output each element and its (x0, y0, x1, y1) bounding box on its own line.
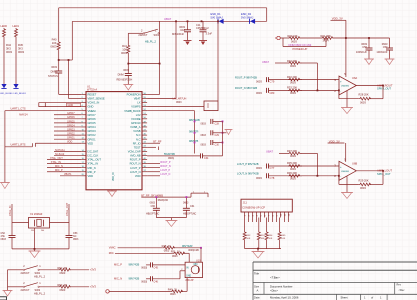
junction (257, 248, 259, 250)
wire (118, 247, 163, 249)
wire VBAT rail top (59, 7, 267, 9)
svg-text:GPIO3: GPIO3 (88, 129, 97, 133)
switch SW3 (8, 286, 24, 288)
svg-text:C61: C61 (190, 205, 195, 208)
wire (335, 37, 390, 39)
junction (382, 85, 384, 87)
wire (127, 54, 129, 64)
svg-text:MIC: MIC (109, 251, 114, 255)
svg-text:Monday, April 10, 2006: Monday, April 10, 2006 (270, 296, 299, 300)
capacitor C60 (155, 197, 157, 208)
svg-text:55UR74B: 55UR74B (164, 153, 175, 156)
svg-text:0603|: 0603| (141, 267, 147, 270)
svg-text:POWER-UP: POWER-UP (293, 47, 308, 51)
svg-text:0603: 0603 (183, 201, 189, 204)
svg-text:VMEM: VMEM (88, 109, 96, 113)
svg-text:LOUT_N 98V742B: LOUT_N 98V742B (237, 172, 259, 176)
ground (341, 192, 353, 194)
left ground rail (4, 111, 6, 183)
capacitor C11 (202, 21, 204, 30)
svg-text:0603: 0603 (360, 186, 366, 190)
wire RF_IO (147, 142, 160, 144)
svg-text:ROUT_N: ROUT_N (160, 165, 170, 168)
svg-text:MIC_P: MIC_P (114, 263, 122, 267)
connector J11 (241, 199, 292, 212)
svg-text:XTAL_OUT: XTAL_OUT (88, 158, 102, 162)
svg-text:LOUT_P: LOUT_P (130, 166, 141, 170)
svg-text:DNM: DNM (51, 70, 57, 74)
svg-text:JUD-3P: JUD-3P (185, 279, 194, 282)
svg-text:5V0 SMAJ: 5V0 SMAJ (211, 16, 224, 20)
wire LOUT_N (147, 175, 160, 177)
svg-text:RESET: RESET (88, 93, 97, 97)
wire GPIO6 (54, 118, 81, 120)
wire (303, 37, 321, 39)
wire (70, 269, 90, 271)
svg-text:UBAT: UBAT (266, 150, 273, 154)
capacitor C77 (266, 164, 268, 169)
svg-text:C28: C28 (215, 123, 220, 126)
svg-text:C77: C77 (270, 166, 275, 170)
svg-text:VDD: VDD (88, 141, 94, 145)
svg-text:GND: GND (88, 105, 94, 109)
wire I2C_DAT (54, 150, 81, 152)
svg-text:GPIO3: GPIO3 (67, 128, 75, 131)
resistor R52 (244, 218, 246, 232)
svg-text:<Doc>: <Doc> (270, 289, 278, 293)
svg-text:XTAL_IN: XTAL_IN (8, 206, 12, 216)
wire LOUT_P (147, 171, 160, 173)
svg-text:Title: Title (254, 272, 259, 276)
svg-text:98V742B: 98V742B (129, 263, 140, 267)
junction (175, 20, 177, 22)
svg-text:0603: 0603 (290, 177, 296, 181)
wire (141, 196, 191, 198)
svg-text:0603|: 0603| (141, 281, 147, 284)
svg-text:LOUT_P 98V742B: LOUT_P 98V742B (237, 162, 259, 166)
svg-text:SW3: SW3 (35, 288, 41, 292)
svg-text:GND: GND (68, 104, 74, 107)
svg-text:GND: GND (186, 276, 191, 278)
GND label box (39, 106, 82, 108)
op-amp U6A (339, 76, 356, 95)
svg-text:0603: 0603 (290, 80, 296, 84)
svg-text:ESD_D2: ESD_D2 (241, 12, 252, 16)
svg-text:VUSB: VUSB (133, 129, 140, 133)
wire (257, 249, 259, 252)
capacitor C46 (146, 278, 151, 280)
svg-text:UART1_RTS: UART1_RTS (11, 142, 26, 146)
wire (68, 204, 70, 236)
svg-text:VDD: VDD (88, 174, 94, 178)
wire (12, 248, 69, 250)
svg-text:LX2: LX2 (136, 113, 141, 117)
ground (3, 290, 13, 292)
svg-text:XTAL_OUT: XTAL_OUT (50, 157, 63, 160)
resistor R45 (15, 28, 18, 38)
wire XTAL_OUT (47, 159, 81, 161)
wire (316, 153, 318, 175)
svg-text:+3V3: +3V3 (90, 284, 97, 288)
capacitor DNM reset (127, 64, 129, 74)
svg-text:0603: 0603 (256, 80, 262, 84)
svg-text:GPIO7: GPIO7 (88, 113, 97, 117)
junction (217, 20, 219, 22)
svg-text:0603: 0603 (73, 238, 79, 241)
wire (7, 270, 9, 291)
wire VDD (35, 142, 81, 144)
wire rail 2 (73, 20, 267, 22)
ground (341, 107, 353, 109)
svg-text:0603: 0603 (290, 154, 296, 158)
stub marks (38, 103, 40, 107)
svg-text:DNM 0603 C9 1N3: DNM 0603 C9 1N3 (289, 43, 312, 47)
ground (165, 220, 177, 222)
svg-text:0603|: 0603| (168, 157, 174, 160)
wire MIC_P (47, 171, 81, 173)
wire GPIO4 (54, 126, 81, 128)
svg-text:C78: C78 (270, 176, 275, 180)
capacitor C53 (66, 235, 73, 237)
svg-text:GPIO2: GPIO2 (88, 133, 97, 137)
svg-text:2WCKT: 2WCKT (138, 33, 147, 37)
svg-text:C10: C10 (180, 28, 185, 32)
antenna connector (191, 192, 208, 194)
svg-text:UBAT: UBAT (262, 60, 269, 64)
svg-text:LOUT_N: LOUT_N (130, 170, 141, 174)
wire VCHG_IN (39, 102, 81, 104)
svg-text:ROUT_P: ROUT_P (160, 161, 170, 164)
wire UBAT to buck (217, 21, 219, 101)
junction (201, 20, 203, 22)
svg-text:100N1UF: 100N1UF (356, 50, 368, 54)
svg-text:10K: 10K (261, 238, 265, 240)
capacitor C57 (389, 38, 391, 48)
svg-text:GPIO4: GPIO4 (88, 125, 97, 129)
wire VSMB to caps (147, 110, 194, 112)
svg-text:0603: 0603 (1, 238, 7, 241)
capacitor C45 (146, 264, 151, 266)
wire output (356, 170, 383, 172)
wire (70, 286, 90, 288)
svg-text:C56: C56 (362, 45, 367, 49)
svg-text:ROUT_N 98V742B: ROUT_N 98V742B (235, 86, 257, 90)
wire GPIO3 (54, 130, 81, 132)
ground (107, 190, 117, 192)
svg-text:0603: 0603 (164, 249, 170, 252)
svg-text:MIC_N: MIC_N (88, 166, 96, 170)
svg-text:LOUT_P: LOUT_P (160, 169, 170, 172)
svg-text:LED1: LED1 (13, 24, 20, 28)
svg-text:C46: C46 (154, 281, 159, 284)
svg-text:ROUT_P: ROUT_P (130, 158, 141, 162)
svg-text:I2C_CLK: I2C_CLK (88, 154, 99, 158)
op-amp U6B (339, 161, 356, 180)
svg-text:XTAL_OUT: XTAL_OUT (65, 202, 69, 216)
svg-text:SW2: SW2 (35, 271, 41, 275)
junction (200, 247, 202, 249)
svg-text:0603: 0603 (6, 50, 12, 54)
wire output (356, 85, 383, 87)
svg-text:IN: IN (186, 267, 189, 269)
svg-text:ESD_D1: ESD_D1 (211, 12, 222, 16)
ground (123, 84, 133, 86)
wire (127, 33, 129, 44)
wire XTAL_IN (47, 163, 81, 165)
wire (3, 38, 5, 85)
svg-text:CON(BGM)-UP-1CP: CON(BGM)-UP-1CP (242, 206, 265, 209)
svg-text:5V0 SMAJ: 5V0 SMAJ (241, 16, 254, 20)
svg-text:0603: 0603 (123, 68, 129, 72)
svg-text:0603: 0603 (201, 144, 207, 147)
svg-text:U6A: U6A (352, 76, 357, 80)
svg-text:10K: 10K (246, 238, 250, 240)
svg-text:3K3: 3K3 (18, 47, 23, 51)
svg-text:VDD: VDD (67, 141, 72, 144)
svg-text:R28 20K: R28 20K (359, 93, 369, 97)
wire VBAT pin (175, 21, 177, 98)
wire (58, 51, 60, 72)
feedback wire (382, 171, 384, 185)
svg-text:3K24: 3K24 (323, 39, 330, 43)
svg-text:CPMM4U2: CPMM4U2 (196, 26, 209, 30)
svg-text:C34: C34 (204, 157, 209, 160)
svg-text:U6B: U6B (352, 161, 357, 165)
junction (156, 196, 158, 198)
svg-text:of: of (371, 296, 373, 300)
svg-text:-: - (340, 89, 341, 93)
wire plain columns (248, 218, 250, 223)
svg-text:POWERON: POWERON (127, 93, 141, 97)
svg-text:HB_PL_2: HB_PL_2 (34, 274, 46, 278)
svg-text:ROUT_N: ROUT_N (130, 162, 141, 166)
svg-text:R45: R45 (18, 43, 23, 47)
wire VBAT_SENSE branch (68, 60, 70, 99)
wire (115, 252, 173, 254)
ground (364, 58, 374, 60)
wire rail to switch to POWERON (159, 21, 161, 94)
capacitor C10 (187, 21, 189, 30)
svg-text:MAX14: MAX14 (19, 113, 28, 116)
svg-text:RF_IO: RF_IO (133, 141, 141, 145)
wire VDD_3V down to op-amp U6A (345, 20, 347, 77)
junction (317, 90, 319, 92)
wire GPIO7 (54, 114, 81, 116)
LED D3 (1, 84, 6, 88)
svg-text:0603: 0603 (290, 64, 296, 68)
wire VCM_CAP (147, 155, 200, 157)
wire VBAT_SENSE (69, 97, 82, 99)
svg-text:VBAT_SENSE: VBAT_SENSE (88, 97, 105, 101)
wire GPIO1 (54, 138, 81, 140)
svg-text:MIC_P: MIC_P (88, 170, 96, 174)
svg-text:MIC: MIC (194, 264, 199, 266)
svg-text:GPIO4: GPIO4 (67, 124, 75, 127)
junction (345, 37, 347, 39)
svg-text:SCHUA1: SCHUA1 (55, 149, 65, 152)
svg-text:GPIO7: GPIO7 (67, 112, 75, 115)
capacitor C78 (266, 173, 268, 178)
svg-text:0603: 0603 (201, 134, 207, 137)
title block frame (253, 261, 417, 263)
svg-text:N.C: N.C (136, 137, 141, 141)
svg-text:VDD_IO: VDD_IO (113, 172, 115, 181)
svg-text:J11: J11 (243, 201, 248, 205)
wire MIC_N (47, 167, 81, 169)
svg-text:R29 20K: R29 20K (359, 178, 369, 182)
wire (345, 143, 347, 162)
svg-text:0603: 0603 (290, 167, 296, 171)
resistor R54 (266, 218, 268, 232)
power port POWER-UP (277, 36, 280, 39)
capacitor C9 DNM loop (282, 38, 284, 47)
wire (179, 271, 181, 279)
wire ROUT_P (147, 163, 160, 165)
svg-text:0603: 0603 (170, 293, 176, 296)
svg-text:HB_PL_2: HB_PL_2 (145, 40, 157, 44)
svg-text:XTAL_IN: XTAL_IN (51, 161, 61, 164)
svg-text:LM4880: LM4880 (341, 86, 350, 88)
capacitor C56 (368, 38, 370, 48)
svg-text:GPIO10: GPIO10 (131, 121, 141, 125)
svg-text:REV:B3F1SH: REV:B3F1SH (117, 77, 133, 81)
sheet corner (0, 297, 7, 300)
svg-text:98V742R: 98V742R (182, 245, 193, 248)
svg-text:LX: LX (137, 101, 140, 105)
svg-text:Document Number: Document Number (270, 284, 293, 288)
svg-text:HB_PL_2: HB_PL_2 (34, 291, 46, 295)
capacitor C61 (185, 197, 187, 208)
wire (181, 290, 187, 292)
svg-text:N.C: N.C (136, 133, 141, 137)
capacitor C79 (266, 77, 268, 82)
ground (199, 40, 207, 42)
resistor R62 (39, 269, 58, 271)
svg-text:GPIO1: GPIO1 (67, 137, 75, 140)
svg-text:WT32i-A: WT32i-A (87, 88, 97, 92)
resistor R44 (3, 28, 6, 38)
svg-text:C60: C60 (151, 205, 156, 208)
svg-text:MIN100nF: MIN100nF (172, 32, 185, 36)
svg-text:0603|C60: 0603|C60 (158, 199, 169, 202)
junction (382, 170, 384, 172)
svg-text:0603: 0603 (176, 101, 182, 104)
svg-text:10K: 10K (268, 238, 272, 240)
wire to ground (346, 91, 348, 108)
switch SW2 (8, 269, 24, 271)
svg-text:R40: R40 (52, 38, 57, 42)
svg-text:10K: 10K (122, 47, 127, 51)
power port (106, 290, 109, 293)
svg-text:-: - (340, 175, 341, 179)
wire I2C_CLK (54, 154, 81, 156)
svg-text:Sheet: Sheet (341, 296, 348, 300)
junction (127, 63, 129, 65)
svg-text:0603: 0603 (60, 288, 66, 292)
resistor R55 (279, 218, 281, 232)
capacitor C80 (266, 88, 268, 93)
wire GPIO5 (54, 122, 81, 124)
wire (58, 8, 60, 41)
svg-text:0603: 0603 (51, 45, 57, 49)
svg-text:0603: 0603 (18, 50, 24, 54)
TEST stub (147, 146, 156, 148)
svg-text:ROUT_P 98V742B: ROUT_P 98V742B (235, 75, 257, 79)
svg-text:LED_BLUE1: LED_BLUE1 (14, 93, 27, 95)
switch SW1 (128, 32, 143, 34)
svg-text:LM4880: LM4880 (341, 171, 350, 173)
svg-text:GPIO5: GPIO5 (88, 121, 97, 125)
svg-text:VBAT1: VBAT1 (64, 173, 72, 176)
wire (71, 21, 73, 60)
svg-text:VUSB_A: VUSB_A (130, 125, 141, 129)
svg-text:STATUS: STATUS (48, 74, 58, 78)
svg-text:SW1: SW1 (154, 33, 160, 37)
svg-text:AVD_NB: AVD_NB (130, 154, 141, 158)
svg-text:0603: 0603 (51, 65, 57, 69)
svg-text:VSMB_BUCK: VSMB_BUCK (124, 109, 141, 113)
svg-text:R44: R44 (6, 43, 11, 47)
wire (222, 121, 224, 155)
svg-text:LED0: LED0 (1, 24, 8, 28)
wire (245, 248, 281, 250)
svg-text:DNM: DNM (118, 72, 124, 76)
svg-text:X1 26MHZ: X1 26MHZ (30, 212, 43, 216)
wire (266, 8, 268, 21)
svg-text:0603: 0603 (360, 100, 366, 104)
svg-text:<Rev: <Rev (399, 289, 406, 292)
wire (183, 252, 189, 254)
svg-text:+3V3: +3V3 (90, 267, 97, 271)
wire VDD (60, 175, 81, 177)
svg-text:C29: C29 (215, 134, 220, 137)
junction (159, 63, 161, 65)
wire ROUT_N (147, 167, 160, 169)
svg-text:GPIO1: GPIO1 (88, 137, 97, 141)
svg-text:UART1_CTS: UART1_CTS (11, 107, 26, 111)
svg-text:HB(OPT)NC: HB(OPT)NC (146, 212, 160, 215)
wire (15, 38, 17, 85)
svg-text:0603: 0603 (121, 51, 127, 55)
svg-text:R41: R41 (122, 44, 127, 48)
junction (34, 248, 36, 250)
svg-text:10K: 10K (52, 41, 57, 45)
svg-text:MIC_P: MIC_P (55, 169, 63, 172)
svg-text:VMIC: VMIC (109, 246, 116, 250)
svg-text:0603: 0603 (256, 176, 262, 180)
svg-text:SCJUA2: SCJUA2 (55, 153, 65, 156)
svg-text:0603: 0603 (256, 91, 262, 95)
svg-text:Date:: Date: (254, 296, 260, 300)
svg-text:BT_RF: BT_RF (153, 140, 162, 144)
capacitor C52 (9, 235, 16, 237)
svg-text:VSMPS: VSMPS (131, 105, 140, 109)
ground (225, 129, 233, 131)
wire RESET (59, 93, 81, 95)
ground (252, 251, 265, 253)
svg-text:SPKL_OUT: SPKL_OUT (377, 172, 391, 176)
wire (174, 247, 201, 249)
svg-text:100N1UF: 100N1UF (376, 50, 388, 54)
IC bottom pad pin (111, 190, 113, 191)
svg-text:VCORE: VCORE (131, 117, 141, 121)
svg-text:LOUT_N: LOUT_N (160, 173, 170, 176)
junction (317, 175, 319, 177)
svg-text:A: A (257, 289, 259, 293)
resistor R53 (258, 218, 260, 232)
svg-text:0603: 0603 (60, 271, 66, 275)
wire GPIO2 (54, 134, 81, 136)
